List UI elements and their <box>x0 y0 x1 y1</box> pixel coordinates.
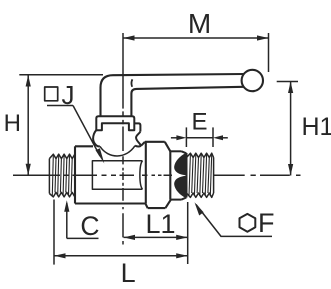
dimension E left arrow <box>176 135 186 140</box>
dimension E <box>171 127 228 147</box>
dimension H line <box>27 75 29 175</box>
packing gland flange <box>96 116 134 130</box>
ball top arc <box>100 146 135 156</box>
dimension C leader <box>67 203 99 238</box>
horizontal centerline <box>13 174 301 176</box>
svg-text:F: F <box>258 208 275 238</box>
svg-text:L1: L1 <box>145 209 175 239</box>
F leader arrow <box>195 202 204 215</box>
dimension H1 bottom arrow <box>288 164 293 176</box>
dimension C arrow <box>64 200 69 212</box>
svg-text:E: E <box>191 108 207 135</box>
handle detail arc <box>130 79 133 87</box>
extension line H1 top <box>277 81 298 83</box>
F leader line <box>196 205 272 237</box>
dimension M left arrow <box>123 35 135 40</box>
extension line H top <box>19 74 103 76</box>
dimension L1 line <box>124 236 188 238</box>
svg-text:C: C <box>80 211 99 241</box>
J leader line <box>73 106 100 157</box>
side tab on gland <box>134 123 140 131</box>
extension line centerline top (solid) <box>122 33 124 109</box>
hex nut side view <box>170 151 186 199</box>
svg-text:H1: H1 <box>302 113 331 141</box>
dimension M right arrow <box>257 35 269 40</box>
dimension M line <box>123 37 269 39</box>
collar ring <box>145 142 171 208</box>
dimension L right arrow <box>176 253 188 258</box>
J leader arrow <box>96 148 105 163</box>
dimension L1 right arrow <box>176 235 188 240</box>
svg-text:H: H <box>4 110 21 137</box>
dimension H1 line <box>290 82 292 176</box>
dimension L line <box>54 255 188 257</box>
svg-text:L: L <box>121 258 136 288</box>
dimension H bottom arrow <box>26 164 31 176</box>
body main block <box>75 142 148 208</box>
right thread crest lines <box>189 155 212 197</box>
right foot notch <box>135 145 141 148</box>
bonnet dome right curve <box>136 131 141 146</box>
label F hexagon symbol <box>240 214 256 232</box>
label J square symbol <box>45 87 58 101</box>
hex nut chamfer lobes <box>174 153 186 176</box>
bonnet dome left curve <box>93 130 100 146</box>
extension line right of M <box>268 33 270 72</box>
right thread <box>187 153 214 197</box>
dimension L left arrow <box>54 253 66 258</box>
J leader underline <box>47 105 73 107</box>
dimension H top arrow <box>26 75 31 87</box>
dimension L1 left arrow <box>124 235 136 240</box>
svg-text:M: M <box>188 8 211 39</box>
left thread crest lines <box>52 156 72 196</box>
vertical centerline <box>122 111 124 244</box>
inner bore rectangle with ball face <box>92 161 142 189</box>
left thread <box>49 154 75 197</box>
dimension E right arrow <box>213 135 223 140</box>
dimension H1 top arrow <box>288 82 293 94</box>
valve handle lever and ball end <box>101 70 264 116</box>
extension line L/L1 right <box>187 202 189 264</box>
extension line L left <box>53 200 55 265</box>
